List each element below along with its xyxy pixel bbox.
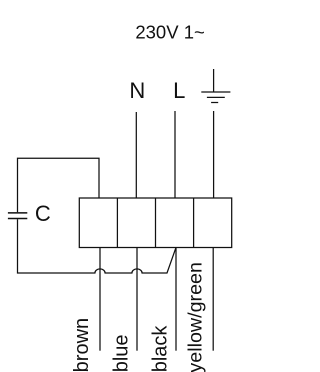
label blue	[111, 334, 133, 372]
svg-text:blue: blue	[111, 334, 133, 372]
wire brown	[99, 248, 101, 351]
wire blue	[136, 248, 138, 351]
wire L to terminal	[174, 111, 176, 198]
label brown	[71, 318, 93, 372]
wire capacitor bottom with hops	[18, 219, 177, 273]
svg-text:black: black	[150, 325, 172, 372]
label N	[129, 78, 145, 103]
svg-text:230V 1~: 230V 1~	[135, 21, 204, 42]
wire ground to terminal	[213, 111, 215, 198]
terminal block	[79, 198, 231, 248]
wire black	[175, 248, 177, 351]
svg-text:yellow/green: yellow/green	[185, 262, 207, 372]
terminal divider 1	[116, 198, 118, 248]
label black	[150, 325, 172, 372]
terminal divider 3	[193, 198, 195, 248]
wire N to terminal	[135, 112, 137, 198]
svg-text:brown: brown	[71, 318, 93, 372]
label C	[35, 201, 51, 226]
label 230V 1~	[135, 21, 204, 42]
svg-text:L: L	[173, 78, 185, 103]
label yellow/green	[185, 262, 207, 372]
label L	[173, 78, 185, 103]
terminal divider 2	[155, 198, 157, 248]
svg-text:N: N	[129, 78, 145, 103]
wire yellow/green	[212, 248, 214, 351]
svg-text:C: C	[35, 201, 51, 226]
ground symbol	[201, 69, 230, 103]
wire capacitor top horizontal	[18, 158, 100, 212]
capacitor C plates	[8, 213, 27, 219]
